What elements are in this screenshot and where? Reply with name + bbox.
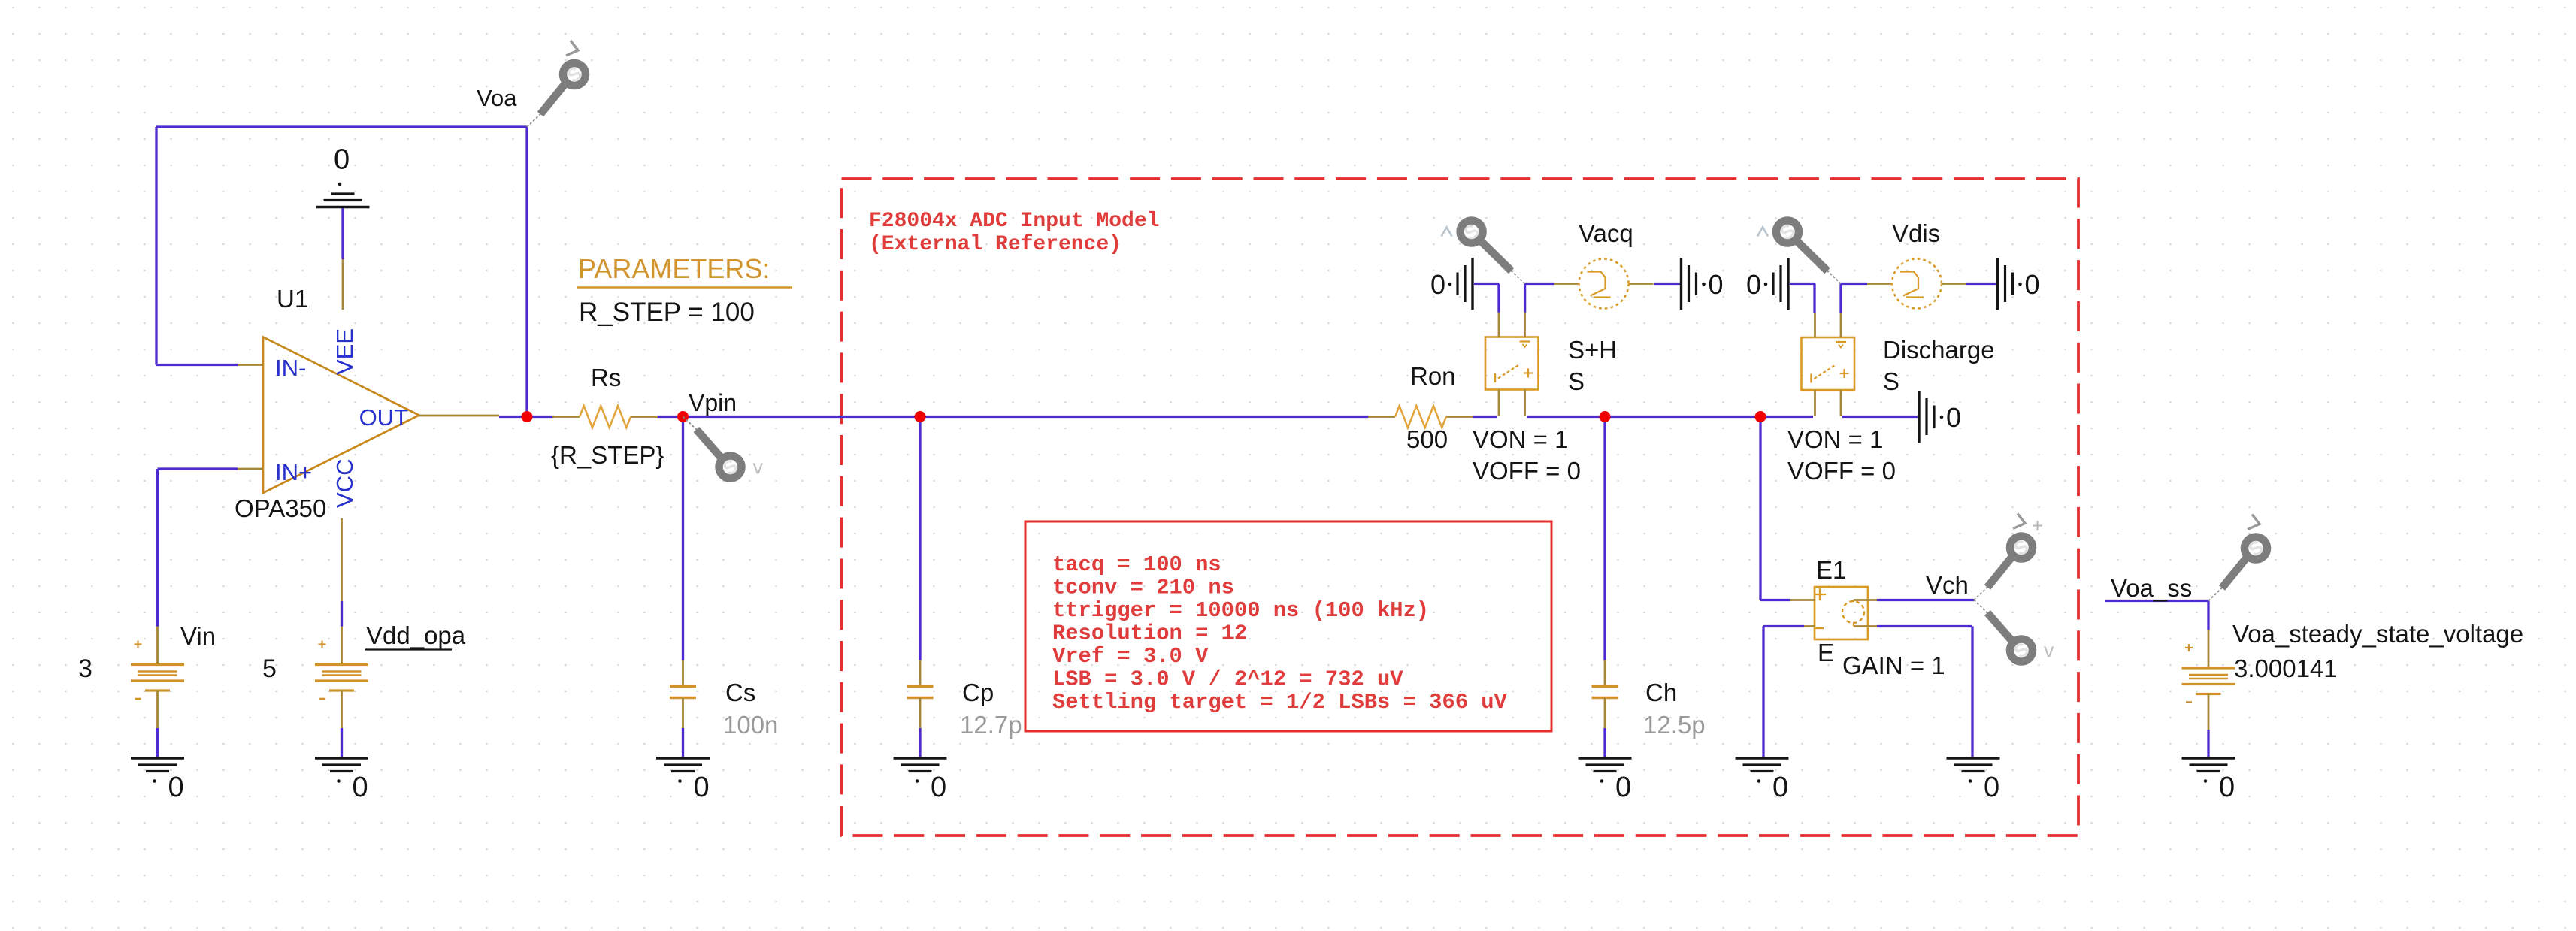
- svg-text:0: 0: [931, 772, 946, 803]
- switch S+H (voltage-controlled): [1485, 313, 1539, 416]
- label Vdd_opa underline: [365, 648, 452, 650]
- rotated ground 0 left of Discharge: [1746, 258, 1788, 310]
- wire Discharge to ground stub: [1842, 416, 1918, 418]
- pin label VEE: [331, 328, 358, 375]
- wire E1 out+ to Vch: [1877, 599, 1974, 601]
- resistor Rs: [552, 406, 658, 428]
- svg-text:Voa_steady_state_voltage: Voa_steady_state_voltage: [2232, 620, 2523, 648]
- wire switch control drop left (Discharge): [1813, 284, 1815, 313]
- ground 0 above U1 (VEE): [316, 144, 370, 207]
- wire E1 control- to ground: [1762, 627, 1764, 758]
- E1 out- pin: [1854, 625, 1877, 627]
- svg-text:0: 0: [1709, 269, 1724, 300]
- wire bus to Ch: [1603, 417, 1606, 661]
- wire OUT to Rs: [499, 416, 554, 418]
- svg-text:0: 0: [1984, 772, 1999, 803]
- svg-text:v: v: [753, 456, 764, 479]
- svg-text:12.7p: 12.7p: [960, 711, 1022, 739]
- svg-text:tacq = 100 ns: tacq = 100 ns: [1052, 552, 1221, 577]
- svg-text:Vacq: Vacq: [1579, 219, 1633, 247]
- voltage probe at Vdis control marker: [1757, 228, 1768, 237]
- rotated ground 0 left of S+H: [1430, 258, 1473, 310]
- voltage probe Vch (+) marker: [2013, 514, 2025, 529]
- junction at OUT/Voa: [522, 411, 533, 422]
- svg-text:OUT: OUT: [359, 404, 409, 431]
- svg-text:0: 0: [1746, 269, 1761, 300]
- voltage probe Vch (+): [1974, 534, 2033, 600]
- wire Vin to ground: [156, 728, 159, 757]
- ground 0 under E1 out-: [1947, 758, 2000, 803]
- svg-text:VEE: VEE: [331, 328, 358, 375]
- voltage probe at Vacq control marker: [1442, 228, 1452, 237]
- op-amp U1 IN- pin: [238, 364, 263, 366]
- op-amp U1 OUT pin: [419, 415, 499, 417]
- E1 minus mark: [1815, 627, 1824, 629]
- svg-text:0: 0: [353, 772, 368, 803]
- voltage source Vin battery: [131, 627, 184, 729]
- svg-text:100n: 100n: [723, 711, 778, 739]
- svg-text:LSB = 3.0 V / 2^12 = 732 uV: LSB = 3.0 V / 2^12 = 732 uV: [1052, 667, 1403, 692]
- wire Ron to S+H switch: [1473, 416, 1497, 418]
- wire to IN-: [156, 364, 238, 366]
- wire Voa_ss to battery: [2207, 601, 2209, 631]
- svg-text:+: +: [2032, 515, 2043, 537]
- svg-text:S: S: [1883, 367, 1899, 395]
- svg-text:E1: E1: [1816, 556, 1846, 584]
- capacitor Ch: [1592, 660, 1618, 729]
- wire Ch to ground: [1603, 728, 1606, 757]
- svg-text:12.5p: 12.5p: [1643, 711, 1706, 739]
- svg-text:(External Reference): (External Reference): [869, 233, 1122, 256]
- pulse source Vacq: [1554, 259, 1654, 309]
- junction at Cp tap: [915, 411, 926, 422]
- junction at E1 control tap: [1755, 411, 1766, 422]
- svg-text:v: v: [2044, 639, 2054, 662]
- svg-text:IN-: IN-: [275, 355, 306, 381]
- svg-text:VOFF = 0: VOFF = 0: [1787, 457, 1896, 485]
- svg-text:0: 0: [334, 144, 350, 176]
- svg-text:0: 0: [1772, 772, 1788, 803]
- svg-text:VOFF = 0: VOFF = 0: [1473, 457, 1581, 485]
- svg-text:OPA350: OPA350: [235, 494, 326, 522]
- wire feedback top: [156, 125, 527, 128]
- svg-text:Vch: Vch: [1926, 571, 1969, 599]
- ground 0 under Vin: [131, 758, 184, 803]
- op-amp U1 IN+ pin: [238, 468, 263, 470]
- svg-text:0: 0: [1430, 269, 1445, 300]
- voltage probe Vch (-): [1974, 600, 2033, 663]
- wire IN+ horizontal: [158, 467, 238, 470]
- svg-text:Cs: Cs: [725, 679, 755, 706]
- svg-text:VON = 1: VON = 1: [1787, 425, 1883, 453]
- svg-text:IN+: IN+: [275, 459, 312, 485]
- voltage probe at Vacq control: [1460, 219, 1525, 283]
- junction at Ch tap: [1600, 411, 1611, 422]
- ADC model dashed boundary box: [842, 179, 2079, 836]
- E1 out+ link: [1853, 600, 1854, 603]
- svg-text:0: 0: [1946, 402, 1961, 433]
- op-amp U1 VEE pin wire: [342, 259, 344, 310]
- wire Vacq ground to switch: [1474, 283, 1499, 285]
- svg-text:Rs: Rs: [591, 364, 621, 391]
- ground 0 under Vdd_opa: [315, 758, 368, 803]
- VCVS E1 box: [1815, 587, 1868, 639]
- svg-text:0: 0: [694, 772, 710, 803]
- rotated ground 0 right of Vacq: [1682, 258, 1724, 310]
- wire bus to Cp: [919, 417, 921, 661]
- pin label VCC: [331, 459, 358, 508]
- voltage probe at Vpin: [683, 417, 743, 480]
- wire Cp to ground: [919, 728, 921, 757]
- ground 0 under Voa_ss: [2182, 758, 2235, 803]
- wire IN+ to Vin vertical: [156, 469, 159, 627]
- voltage probe at Voa marker: [566, 41, 578, 56]
- E1 inner dashed circle: [1842, 601, 1864, 623]
- E1 control- pin: [1804, 625, 1815, 627]
- svg-text:0: 0: [2219, 772, 2235, 803]
- svg-text:Voa: Voa: [477, 85, 517, 111]
- svg-text:S+H: S+H: [1568, 336, 1617, 364]
- svg-text:Vpin: Vpin: [689, 389, 737, 416]
- svg-text:Vin: Vin: [180, 622, 216, 650]
- capacitor Cp: [907, 660, 934, 729]
- wire bus to E1 control+ vertical: [1759, 417, 1761, 600]
- svg-text:S: S: [1568, 367, 1585, 395]
- op-amp U1 VCC pin wire: [341, 518, 343, 601]
- E1 out+ pin: [1854, 599, 1877, 601]
- ground 0 under E1 control-: [1736, 758, 1789, 803]
- svg-text:Voa_ss: Voa_ss: [2111, 574, 2192, 602]
- wire to E1 control+ horizontal: [1760, 599, 1790, 601]
- E1 plus mark: [1819, 588, 1821, 600]
- wire Voa vertical: [525, 127, 528, 417]
- svg-text:0: 0: [2025, 269, 2040, 300]
- wire Rs to Ron bus: [657, 416, 1369, 418]
- ground 0 under Cp: [894, 758, 947, 803]
- svg-text:R_STEP = 100: R_STEP = 100: [579, 298, 755, 327]
- svg-text:Vdis: Vdis: [1892, 219, 1940, 247]
- wire VCC to Vdd battery: [341, 601, 343, 627]
- capacitor Cs: [670, 660, 696, 729]
- wire node to Vdis source: [1841, 283, 1867, 285]
- ADC timing annotation box: [1025, 521, 1551, 731]
- svg-text:Discharge: Discharge: [1883, 336, 1995, 364]
- wire Vpin to Cs: [682, 417, 684, 661]
- svg-text:Settling target = 1/2 LSBs = 3: Settling target = 1/2 LSBs = 366 uV: [1052, 690, 1508, 715]
- svg-text:U1: U1: [277, 285, 308, 313]
- svg-text:{R_STEP}: {R_STEP}: [551, 441, 664, 469]
- svg-text:VCC: VCC: [331, 459, 358, 508]
- wire Vacq source to ground: [1654, 283, 1681, 285]
- wire S+H to Discharge bus: [1527, 416, 1813, 418]
- svg-text:5: 5: [262, 654, 277, 683]
- wire Voa_ss battery to ground: [2207, 730, 2209, 757]
- svg-text:E: E: [1818, 639, 1834, 667]
- PARAMETERS underline: [577, 286, 792, 289]
- E1 out- link: [1853, 622, 1854, 627]
- svg-text:3: 3: [78, 654, 92, 683]
- voltage source Vdd_opa battery: [315, 627, 368, 729]
- resistor Ron: [1368, 406, 1473, 428]
- op-amp U1 triangle: [263, 337, 419, 494]
- svg-text:ttrigger = 10000 ns (100 kHz): ttrigger = 10000 ns (100 kHz): [1052, 598, 1429, 623]
- voltage probe at Voa_ss marker: [2248, 515, 2260, 530]
- wire Vdis ground to switch: [1790, 283, 1815, 285]
- wire feedback left vertical: [155, 127, 157, 365]
- wire E1 control- horizontal: [1763, 625, 1804, 627]
- svg-text:Resolution = 12: Resolution = 12: [1052, 621, 1247, 646]
- E1 control+ pin: [1790, 599, 1815, 601]
- voltage probe at Voa_ss: [2208, 535, 2268, 600]
- wire Vacq node drop: [1524, 284, 1526, 313]
- rotated ground 0 after Discharge switch: [1919, 391, 1961, 443]
- wire Vdd_opa to ground: [341, 728, 343, 757]
- svg-text:Cp: Cp: [962, 679, 994, 706]
- wire switch control drop left (S+H): [1497, 284, 1500, 313]
- svg-text:0: 0: [1615, 772, 1631, 803]
- switch Discharge (voltage-controlled): [1802, 313, 1855, 416]
- wire ground to VEE: [341, 207, 344, 259]
- svg-text:tconv = 210 ns: tconv = 210 ns: [1052, 576, 1234, 600]
- svg-text:VON = 1: VON = 1: [1473, 425, 1568, 453]
- svg-text:0: 0: [168, 772, 184, 803]
- svg-text:Ch: Ch: [1645, 679, 1677, 706]
- svg-text:3.000141: 3.000141: [2234, 654, 2338, 682]
- voltage source Voa_steady_state_voltage battery: [2182, 630, 2235, 732]
- junction at Vpin: [677, 411, 689, 422]
- wire Voa_ss stub: [2105, 600, 2208, 602]
- wire Vdis source to ground: [1966, 283, 1997, 285]
- wire Vdis node drop: [1839, 284, 1842, 313]
- svg-text:PARAMETERS:: PARAMETERS:: [578, 253, 770, 284]
- svg-text:Vref = 3.0 V: Vref = 3.0 V: [1052, 644, 1209, 669]
- ground 0 under Ch: [1579, 758, 1632, 803]
- voltage probe at Voa: [527, 62, 586, 127]
- wire Cs to ground: [682, 728, 684, 757]
- svg-text:500: 500: [1406, 425, 1448, 453]
- svg-text:GAIN = 1: GAIN = 1: [1842, 651, 1945, 679]
- voltage probe at Vdis control: [1775, 219, 1841, 283]
- svg-text:Vdd_opa: Vdd_opa: [366, 621, 466, 649]
- ground 0 under Cs: [656, 758, 710, 803]
- wire E1 out- to ground: [1971, 627, 1973, 758]
- wire node to Vacq source: [1525, 283, 1554, 285]
- pulse source Vdis: [1867, 259, 1966, 309]
- rotated ground 0 right of Vdis: [1998, 258, 2040, 310]
- svg-text:F28004x ADC Input Model: F28004x ADC Input Model: [869, 210, 1159, 233]
- svg-text:Ron: Ron: [1410, 362, 1456, 390]
- wire E1 out- horizontal: [1877, 625, 1972, 627]
